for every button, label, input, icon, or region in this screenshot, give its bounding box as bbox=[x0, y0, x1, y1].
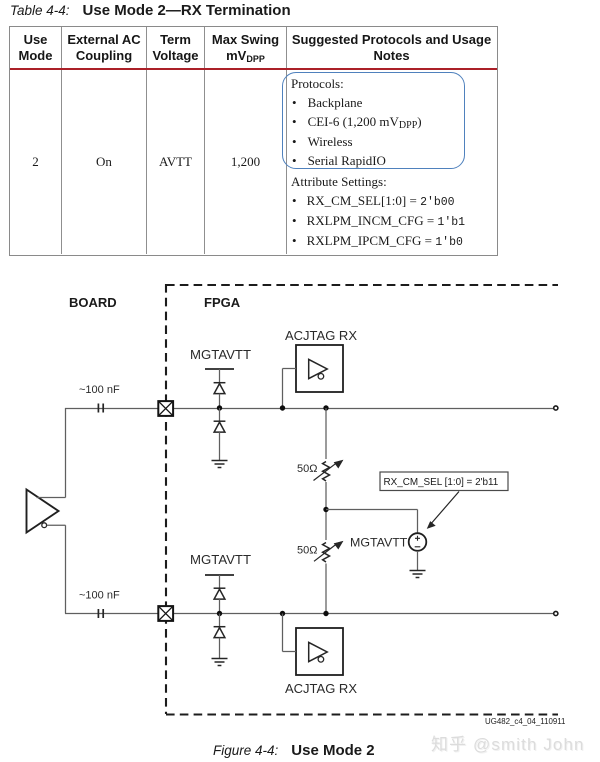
terminal P (open circle) bbox=[554, 406, 558, 410]
svg-text:50Ω: 50Ω bbox=[297, 545, 317, 557]
svg-text:BOARD: BOARD bbox=[69, 295, 117, 310]
junction node P / U2 tap bbox=[280, 405, 285, 410]
pad X1 (package pin) bbox=[158, 401, 173, 416]
svg-text:50Ω: 50Ω bbox=[297, 463, 317, 475]
wire D1 to node P bbox=[219, 394, 221, 408]
wire V1 to ground bbox=[417, 551, 419, 570]
junction node N / D3 bbox=[217, 611, 222, 616]
ground (top clamp) bbox=[212, 461, 228, 468]
svg-text:~100 nF: ~100 nF bbox=[79, 384, 120, 396]
power rail MGTAVTT bottom bbox=[205, 574, 234, 576]
R1 variable arrow bbox=[314, 460, 343, 480]
svg-text:ACJTAG RX: ACJTAG RX bbox=[285, 328, 357, 343]
table 4-4 frame bbox=[9, 26, 498, 256]
diode D4 bbox=[214, 627, 226, 638]
svg-text:~100 nF: ~100 nF bbox=[79, 590, 120, 602]
wire node P to D2 bbox=[219, 408, 221, 421]
driver buffer U1 (board side) bbox=[27, 490, 59, 533]
wire node N to D4 bbox=[219, 614, 221, 627]
resistor R1 50 ohm (variable) bbox=[323, 462, 330, 482]
figure caption bbox=[213, 742, 375, 759]
wire rail to D3 bbox=[219, 575, 221, 588]
svg-text:MGTAVTT: MGTAVTT bbox=[190, 347, 251, 362]
U3 bubble bbox=[318, 657, 324, 663]
wire top channel (P) bbox=[65, 408, 554, 410]
U2 bubble bbox=[318, 374, 324, 380]
table column divider 2 bbox=[146, 27, 147, 254]
terminal N (open circle) bbox=[554, 611, 558, 615]
callout arrow bbox=[427, 492, 459, 529]
ACJTAG RX buffer box U2 bbox=[296, 345, 343, 392]
ground (V1) bbox=[410, 571, 426, 578]
V1 minus sign bbox=[415, 546, 421, 548]
wire driver P output bbox=[37, 408, 66, 498]
junction center node bbox=[323, 507, 328, 512]
wire R1 to center node bbox=[325, 482, 327, 540]
junction node P / D1 bbox=[217, 405, 222, 410]
table header row bbox=[10, 32, 61, 63]
capacitor C2 ~100 nF bbox=[98, 609, 103, 618]
svg-text:ACJTAG RX: ACJTAG RX bbox=[285, 681, 357, 696]
svg-text:RX_CM_SEL [1:0] = 2'b11: RX_CM_SEL [1:0] = 2'b11 bbox=[384, 477, 499, 488]
wire bottom channel (N) bbox=[65, 613, 554, 615]
wire center node to VTT source bbox=[326, 510, 418, 534]
wire D2 to ground bbox=[219, 432, 221, 460]
wire D4 to ground bbox=[219, 638, 221, 658]
table header red rule bbox=[10, 68, 497, 71]
wire R2 to node N bbox=[325, 564, 327, 614]
ground (bottom clamp) bbox=[212, 659, 228, 666]
svg-text:MGTAVTT: MGTAVTT bbox=[190, 552, 251, 567]
diode D2 bbox=[214, 421, 226, 432]
blue highlight rounded box bbox=[282, 72, 465, 169]
capacitor C1 ~100 nF bbox=[98, 404, 103, 413]
svg-text:FPGA: FPGA bbox=[204, 295, 241, 310]
wire driver N output bbox=[47, 525, 66, 613]
ACJTAG RX buffer box U3 bbox=[296, 628, 343, 675]
wire rail to D1 bbox=[219, 369, 221, 382]
V1 plus sign bbox=[415, 536, 420, 541]
svg-text:MGTAVTT: MGTAVTT bbox=[350, 536, 408, 550]
callout box RX_CM_SEL bbox=[380, 472, 508, 491]
U2 buffer triangle bbox=[309, 359, 328, 378]
R2 variable arrow bbox=[314, 541, 343, 561]
wire D3 to node N bbox=[219, 599, 221, 613]
svg-text:UG482_c4_04_110911: UG482_c4_04_110911 bbox=[485, 717, 565, 726]
junction node P / R1 bbox=[323, 405, 328, 410]
resistor R2 50 ohm (variable) bbox=[323, 543, 330, 563]
table title bbox=[10, 2, 291, 19]
cell notes text bbox=[291, 76, 344, 92]
diode D3 bbox=[214, 588, 226, 599]
FPGA dashed boundary box bbox=[166, 284, 558, 715]
voltage source V1 bbox=[409, 533, 427, 551]
wire U2 input bbox=[283, 369, 297, 409]
table column divider 4 bbox=[286, 27, 287, 254]
wire node P to R1 bbox=[325, 408, 327, 459]
inversion bubble on driver N output bbox=[42, 523, 47, 528]
table column divider 3 bbox=[204, 27, 205, 254]
table column divider 1 bbox=[61, 27, 62, 254]
diode D1 bbox=[214, 383, 226, 394]
power rail MGTAVTT top bbox=[205, 368, 234, 370]
junction node N / R2 bbox=[323, 611, 328, 616]
watermark zhihu bbox=[431, 730, 585, 755]
table body row values bbox=[10, 154, 61, 170]
pad X2 (package pin) bbox=[158, 606, 173, 621]
wire U3 input bbox=[283, 614, 297, 652]
junction node N / U3 tap bbox=[280, 611, 285, 616]
U3 buffer triangle bbox=[309, 642, 328, 661]
